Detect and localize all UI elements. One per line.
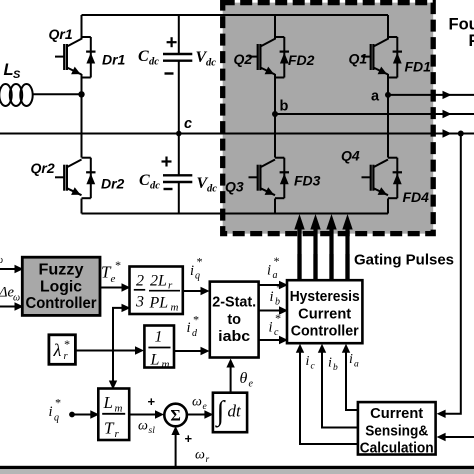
label ib* (270, 281, 282, 308)
label omega-e (192, 395, 207, 413)
svg-text:2L: 2L (150, 272, 167, 289)
wire bottom DC rail (82, 213, 389, 215)
wire ic* (259, 336, 288, 344)
svg-text:Fou: Fou (449, 16, 474, 34)
label Cdc (lower) (139, 172, 160, 192)
wire phase-c sense line (445, 134, 461, 414)
svg-text:Current: Current (370, 406, 423, 422)
label Vdc (upper) (196, 49, 217, 69)
svg-text:*: * (115, 258, 121, 272)
svg-text:FD1: FD1 (405, 59, 432, 75)
svg-text:to: to (227, 312, 241, 328)
svg-text:L: L (150, 352, 160, 369)
wire iq* reference (183, 287, 210, 295)
svg-text:i: i (187, 320, 191, 336)
label ia (349, 352, 359, 370)
svg-text:3: 3 (135, 294, 144, 311)
svg-text:Gating Pulses: Gating Pulses (354, 252, 454, 269)
svg-text:L: L (103, 393, 113, 412)
wire Te* output (100, 283, 131, 291)
capacitor Cdc (upper) (163, 54, 192, 61)
svg-text:*: * (273, 254, 279, 268)
transistor Q2 (249, 39, 276, 75)
transistor Q4 (362, 160, 389, 196)
svg-text:iabc: iabc (218, 329, 250, 345)
svg-text:+: + (185, 431, 193, 446)
label iq* (190, 255, 202, 282)
svg-text:S: S (13, 69, 21, 81)
svg-text:i: i (269, 320, 273, 336)
diode Dr2 (82, 158, 96, 199)
svg-text:P: P (469, 32, 474, 50)
block U2 gain 2/3*2Lr/PLm (130, 267, 183, 315)
svg-text:r: r (115, 428, 120, 440)
wire id* reference (174, 347, 210, 355)
svg-text:q: q (54, 413, 59, 424)
diode FD2 (275, 37, 289, 78)
svg-text:b: b (280, 99, 289, 115)
svg-text:*: * (275, 311, 281, 325)
svg-text:T: T (104, 419, 115, 438)
svg-text:Q4: Q4 (341, 148, 360, 164)
svg-text:Dr1: Dr1 (102, 52, 126, 68)
wire slip to summer (129, 410, 164, 418)
svg-text:m: m (115, 403, 123, 415)
svg-text:c: c (311, 362, 316, 372)
label theta-e (240, 370, 254, 390)
capacitor Cdc (lower) (163, 175, 192, 182)
svg-text:Logic: Logic (40, 279, 82, 296)
svg-text:e: e (111, 273, 116, 285)
gating pulse arrows into converter (300, 228, 348, 280)
summing junction (164, 404, 187, 427)
wire flux branch to gain block (113, 308, 122, 351)
svg-text:b: b (333, 363, 338, 373)
svg-text:dc: dc (207, 184, 217, 195)
svg-text:Q3: Q3 (225, 179, 244, 195)
gating pulse leads from hysteresis controller (300, 254, 348, 280)
svg-text:c: c (184, 116, 192, 132)
transistor Q1 (362, 39, 389, 75)
block gain 1/Lm (144, 326, 174, 371)
transistor Qr2 (55, 160, 82, 196)
svg-text:PL: PL (149, 295, 169, 312)
wire ic feedback (300, 352, 358, 445)
block U4 Hysteresis Current Controller (287, 280, 362, 343)
diode FD1 (388, 37, 402, 78)
polarity - (upper cap) (165, 72, 174, 74)
svg-text:Calculation: Calculation (360, 441, 434, 457)
node Ls junction (78, 91, 84, 97)
svg-text:*: * (276, 281, 282, 295)
label ic (306, 354, 316, 372)
wire speed-error input (0, 265, 24, 273)
wire ib* (259, 306, 288, 314)
label omega-r (195, 448, 210, 466)
block U5 Current Sensing & Calculation (358, 402, 436, 456)
wire iq* input terminal (69, 410, 99, 418)
wire phase-b line with arrow (275, 110, 474, 118)
label Ls (4, 61, 22, 81)
svg-text:ω: ω (138, 419, 148, 434)
svg-text:Qr2: Qr2 (31, 160, 55, 176)
svg-text:FD2: FD2 (288, 52, 315, 68)
block slip gain Lm/Tr (98, 389, 129, 441)
node b (272, 99, 289, 118)
svg-text:Q2: Q2 (234, 51, 253, 67)
block U1 Fuzzy Logic Controller (22, 257, 100, 315)
svg-text:b: b (275, 297, 280, 308)
label Cdc (upper) (138, 48, 159, 68)
svg-text:q: q (195, 271, 200, 282)
svg-text:m: m (171, 302, 179, 314)
wire external sense line (437, 433, 474, 441)
svg-text:*: * (196, 255, 202, 269)
node c (176, 116, 192, 136)
svg-text:λ: λ (53, 340, 62, 360)
svg-text:C: C (138, 48, 149, 65)
label delta-e-omega (0, 285, 20, 304)
wire leg-a vertical (Q1/Q4 leg) (387, 15, 389, 214)
svg-text:i: i (270, 289, 274, 305)
svg-text:i: i (306, 354, 310, 369)
transistor Q3 (249, 160, 276, 196)
transistor Qr1 (55, 39, 82, 75)
polarity + (upper cap) (167, 37, 177, 47)
svg-text:ω: ω (195, 448, 205, 463)
label Four-Switch P (clipped at edge) (449, 16, 474, 51)
bottom gray band (0, 469, 474, 474)
svg-text:i: i (49, 404, 53, 420)
wire top DC rail (82, 14, 389, 16)
label Vdc (lower) (197, 175, 218, 195)
svg-text:Controller: Controller (291, 324, 359, 340)
wire omega-r feedback (171, 426, 179, 467)
svg-text:C: C (139, 172, 150, 189)
svg-text:Current: Current (298, 307, 351, 323)
diode FD3 (275, 158, 289, 199)
svg-text:d: d (192, 328, 198, 339)
label Te* (101, 258, 121, 285)
svg-text:a: a (354, 360, 359, 370)
svg-text:*: * (193, 313, 199, 327)
svg-text:a: a (371, 89, 380, 105)
wire leg-b vertical (Q2/Q3 leg) (274, 15, 276, 214)
diode Dr1 (82, 37, 96, 78)
inductor Ls (0, 84, 81, 106)
wire phase-a line with arrow (388, 91, 474, 99)
polarity - (lower cap) (164, 188, 173, 190)
wire delta-error input (0, 302, 24, 310)
svg-text:ω: ω (0, 255, 3, 266)
label ia* (267, 254, 279, 281)
wire ia* (259, 281, 288, 289)
node c-line tap (458, 131, 464, 137)
svg-text:ω: ω (192, 395, 202, 410)
svg-text:2-Stat.: 2-Stat. (212, 295, 256, 311)
svg-text:Hysteresis: Hysteresis (290, 289, 360, 305)
svg-text:ω: ω (13, 293, 20, 304)
wire flux branch down to slip block (112, 351, 114, 382)
bottom figure separator line (0, 466, 474, 469)
svg-text:r: r (206, 455, 210, 465)
wire DC-link capacitor rail (178, 15, 180, 214)
svg-text:a: a (273, 270, 278, 281)
svg-text:θ: θ (240, 370, 248, 387)
svg-text:i: i (349, 352, 353, 367)
svg-text:e: e (203, 402, 207, 412)
polarity + (lower cap) (162, 157, 172, 167)
svg-text:dc: dc (149, 57, 159, 68)
label ic* (269, 311, 281, 338)
block U3 2-Stat to iabc (210, 282, 259, 358)
svg-text:i: i (267, 263, 271, 279)
node a (371, 89, 391, 105)
svg-text:Controller: Controller (26, 295, 97, 312)
dashed converter box (gray) (223, 3, 434, 234)
wire rectifier leg vertical (Qr1/Qr2 leg) (81, 15, 83, 214)
svg-text:c: c (274, 327, 279, 338)
wire phase-c line with arrow (0, 129, 474, 137)
wire lambda to 1/Lm (75, 346, 144, 354)
svg-text:Dr2: Dr2 (101, 176, 125, 192)
svg-text:r: r (168, 280, 173, 292)
svg-text:Sensing&: Sensing& (365, 424, 428, 440)
svg-text:Fuzzy: Fuzzy (39, 262, 84, 279)
svg-text:e: e (249, 379, 254, 390)
svg-text:Q1: Q1 (349, 51, 368, 67)
svg-text:FD3: FD3 (294, 173, 321, 189)
svg-text:dc: dc (150, 181, 160, 192)
svg-text:2: 2 (136, 273, 144, 290)
label iq* (terminal) (49, 396, 61, 424)
label omega-sl (138, 419, 155, 437)
svg-text:Σ: Σ (170, 408, 180, 425)
wire ia feedback (346, 352, 358, 411)
svg-text:dc: dc (206, 58, 216, 69)
svg-text:*: * (55, 396, 61, 410)
wire theta-e to transform (226, 359, 234, 393)
diode FD4 (388, 158, 402, 199)
svg-text:sl: sl (149, 426, 156, 436)
svg-text:FD4: FD4 (403, 189, 430, 205)
svg-text:*: * (64, 337, 70, 351)
block flux reference lambda-r* (49, 335, 76, 365)
block integrator (213, 393, 247, 433)
svg-text:1: 1 (155, 329, 163, 346)
wire omega-e to integrator (187, 410, 214, 418)
svg-text:m: m (162, 359, 170, 371)
svg-text:Qr1: Qr1 (49, 26, 73, 42)
svg-text:i: i (328, 356, 332, 371)
wire ib feedback (322, 352, 358, 428)
label id* (187, 313, 199, 340)
label ib (328, 356, 338, 374)
svg-text:dt: dt (228, 402, 243, 421)
svg-text:i: i (190, 263, 194, 279)
svg-text:+: + (148, 394, 156, 409)
